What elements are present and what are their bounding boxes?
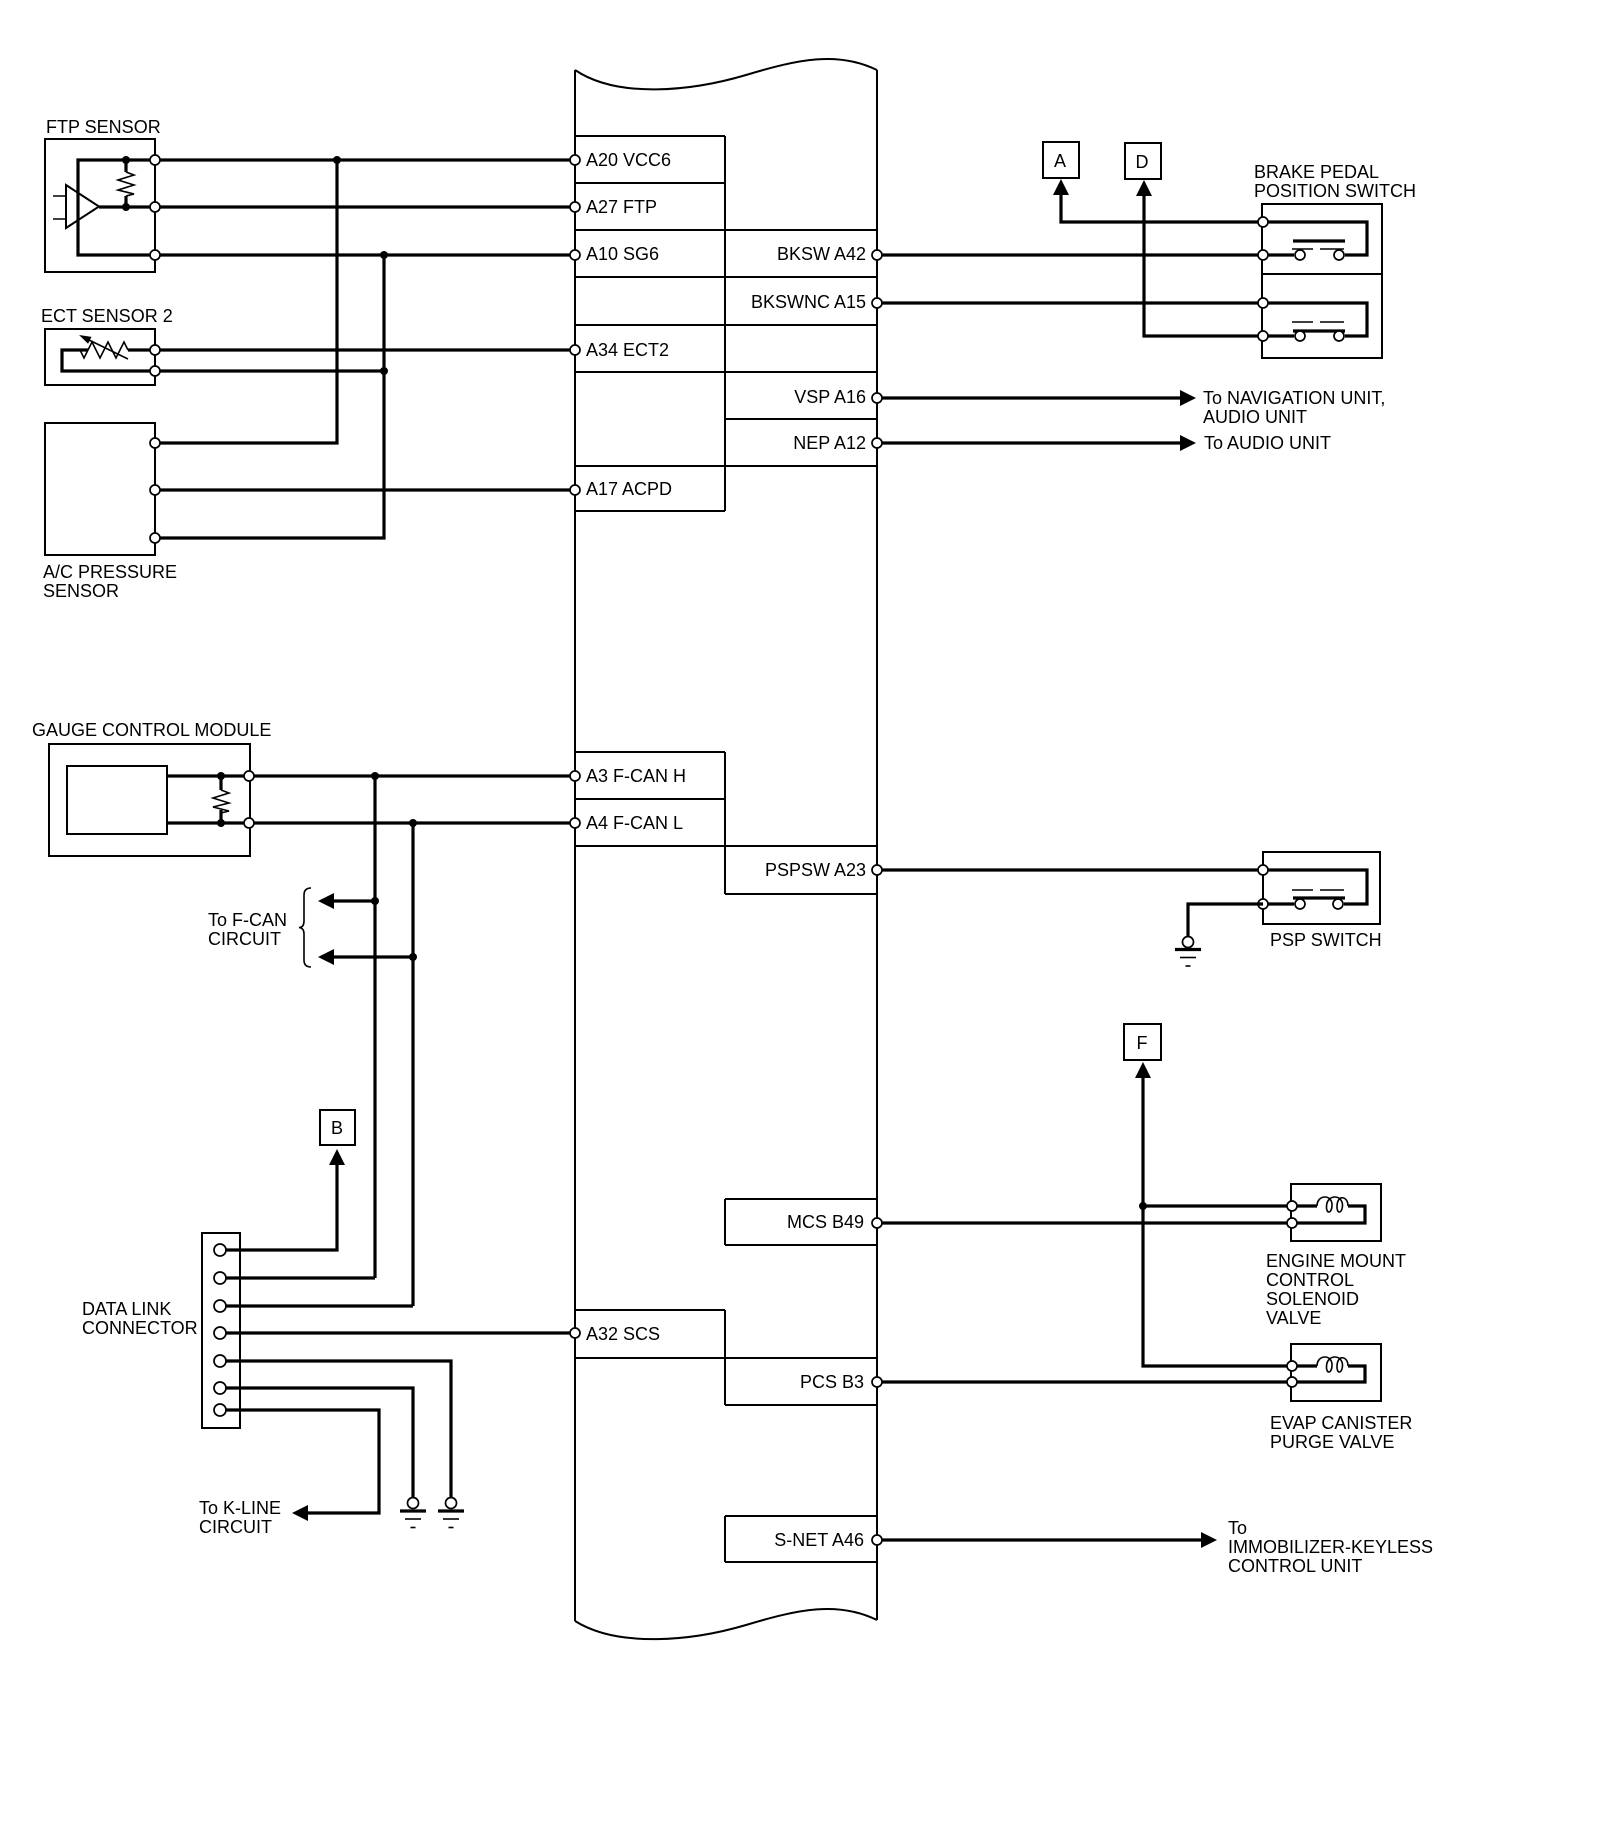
FTP sensor pin 1: [150, 155, 160, 165]
wire ECU VSP A16 output arrow: [877, 390, 1196, 406]
engine mount control solenoid valve box: [1291, 1184, 1381, 1241]
FTP sensor op-amp U2: [53, 185, 155, 228]
data link connector box: [202, 1233, 240, 1428]
wire ECU MCS B49 to engine mount solenoid: [877, 1221, 1292, 1224]
FTP sensor internal supply rail wire: [78, 160, 155, 255]
wire to F-CAN circuit lower arrow: [318, 949, 413, 965]
svg-text:A3 F-CAN H: A3 F-CAN H: [586, 766, 686, 786]
DLC pin 3: [214, 1300, 226, 1312]
svg-text:A20 VCC6: A20 VCC6: [586, 150, 671, 170]
wire ECU PSPSW A23 to PSP switch: [877, 868, 1263, 871]
ECU inner column line x=725: [724, 136, 726, 1562]
svg-text:A: A: [1054, 151, 1066, 171]
wire FTP pin3 to ECU A10 SG6: [160, 253, 575, 256]
svg-text:FTP SENSOR: FTP SENSOR: [46, 117, 161, 137]
wire feed to engine mount solenoid: [1143, 1204, 1292, 1207]
ECU pin circle BKSW: [872, 250, 882, 260]
pin row divider lines (right column x725-877): [725, 419, 877, 1562]
wire VCC6 trunk down to A/C sensor pin1: [160, 160, 337, 443]
junction dot F-CAN L branch: [409, 819, 417, 827]
gauge control module pin 2: [244, 818, 254, 828]
brake switch SW2 fixed contacts: [1295, 331, 1305, 341]
engine mount solenoid coil L1: [1292, 1197, 1365, 1223]
wire GCM pin1 to ECU A3 F-CAN H: [254, 774, 575, 777]
EVAP purge valve coil L2: [1292, 1357, 1365, 1382]
svg-text:IMMOBILIZER-KEYLESS: IMMOBILIZER-KEYLESS: [1228, 1537, 1433, 1557]
PSP switch fixed contacts: [1295, 899, 1305, 909]
wire DLC pin4 to ECU A32 SCS: [226, 1331, 575, 1334]
brake switch SW2 contact wiring: [1263, 303, 1367, 336]
svg-text:A17 ACPD: A17 ACPD: [586, 479, 672, 499]
svg-text:BKSW A42: BKSW A42: [777, 244, 866, 264]
brake switch SW1 fixed contacts: [1295, 250, 1305, 260]
wire FTP pin2 to ECU A27 FTP: [160, 205, 575, 208]
ground G2 (DLC pin6): [400, 1498, 426, 1528]
svg-text:VALVE: VALVE: [1266, 1308, 1321, 1328]
connector reference box F: [1124, 1024, 1161, 1060]
pin row divider lines (full span x575-877): [575, 230, 877, 1358]
wire DLC pin2 to F-CAN H trunk: [226, 1276, 375, 1279]
svg-text:NEP A12: NEP A12: [793, 433, 866, 453]
wire SG6 trunk down to A/C sensor pin3: [160, 255, 384, 538]
wire ECU BKSW A42 to brake switch: [877, 253, 1263, 256]
junction dot SG6 branch: [380, 251, 388, 259]
svg-text:A27 FTP: A27 FTP: [586, 197, 657, 217]
PSP switch contact wiring: [1263, 870, 1367, 904]
svg-text:SENSOR: SENSOR: [43, 581, 119, 601]
ECT sensor 2 box: [45, 329, 155, 385]
svg-text:A34 ECT2: A34 ECT2: [586, 340, 669, 360]
gauge control module outer box: [49, 744, 250, 856]
ECU pin circle A34: [570, 345, 580, 355]
gauge control module terminating resistor: [213, 776, 229, 823]
wire DLC pin7 to K-LINE arrow: [226, 1410, 379, 1521]
ECT sensor 2 pin 2: [150, 366, 160, 376]
PSP switch terminals: [1258, 865, 1268, 875]
junction dot GCM resistor top: [217, 772, 225, 780]
svg-text:CIRCUIT: CIRCUIT: [199, 1517, 272, 1537]
junction dot F-CAN L arrow tee: [409, 953, 417, 961]
ECU pin circle A32: [570, 1328, 580, 1338]
wire ECU NEP A12 output arrow: [877, 435, 1196, 451]
wire F-CAN L trunk: [411, 823, 414, 1306]
svg-text:D: D: [1136, 152, 1149, 172]
svg-text:CONTROL UNIT: CONTROL UNIT: [1228, 1556, 1362, 1576]
svg-text:CONNECTOR: CONNECTOR: [82, 1318, 198, 1338]
junction dot GCM resistor bottom: [217, 819, 225, 827]
pin row divider lines (left column x575-725): [575, 136, 725, 1310]
wire PSP switch to ground: [1188, 904, 1263, 937]
EVAP purge valve pin 2: [1287, 1377, 1297, 1387]
engine mount solenoid pin 1: [1287, 1201, 1297, 1211]
junction dot ECT2 ground tee: [380, 367, 388, 375]
DLC pin 6: [214, 1382, 226, 1394]
junction dot FTP rail/resistor top: [122, 156, 130, 164]
ground G1 (PSP switch): [1175, 937, 1201, 967]
ECU pin circle A20: [570, 155, 580, 165]
ECU pin circle A3: [570, 771, 580, 781]
ECU pin circle MCS: [872, 1218, 882, 1228]
wire ECU right edge: [876, 70, 878, 1620]
svg-text:PCS B3: PCS B3: [800, 1372, 864, 1392]
brake switch SW2 moving contact bar: [1292, 322, 1345, 331]
wire ECU PCS B3 to EVAP purge valve: [877, 1380, 1292, 1383]
svg-text:ENGINE MOUNT: ENGINE MOUNT: [1266, 1251, 1406, 1271]
svg-text:DATA LINK: DATA LINK: [82, 1299, 171, 1319]
ECU pin circle NEP: [872, 438, 882, 448]
ECT sensor 2 pin 1: [150, 345, 160, 355]
ECT sensor 2 thermistor element: [62, 335, 155, 371]
wire ECU BKSWNC A15 to brake switch: [877, 301, 1263, 304]
junction dot F-CAN H arrow tee: [371, 897, 379, 905]
brake switch SW1 terminals: [1258, 217, 1268, 227]
DLC pin 7: [214, 1404, 226, 1416]
junction dot solenoid feed tee: [1139, 1202, 1147, 1210]
svg-text:A10 SG6: A10 SG6: [586, 244, 659, 264]
brace for F-CAN circuit: [299, 888, 311, 967]
junction dot VCC6 branch: [333, 156, 341, 164]
DLC pin 1: [214, 1244, 226, 1256]
svg-text:PSP SWITCH: PSP SWITCH: [1270, 930, 1382, 950]
wire ECT pin2 to SG6 trunk: [160, 369, 384, 372]
svg-text:AUDIO UNIT: AUDIO UNIT: [1203, 407, 1307, 427]
svg-text:BRAKE PEDAL: BRAKE PEDAL: [1254, 162, 1379, 182]
ECU pin circle PCS: [872, 1377, 882, 1387]
svg-text:CONTROL: CONTROL: [1266, 1270, 1354, 1290]
engine mount solenoid pin 2: [1287, 1218, 1297, 1228]
wire ECU S-NET A46 output arrow: [877, 1532, 1217, 1548]
EVAP canister purge valve box: [1291, 1344, 1381, 1401]
ECU pin circle A4: [570, 818, 580, 828]
ECU pin circle S-NET: [872, 1535, 882, 1545]
wire BKSWNC branch up to box D: [1136, 180, 1263, 336]
svg-text:To F-CAN: To F-CAN: [208, 910, 287, 930]
wire F-CAN H trunk: [373, 776, 376, 1278]
connector reference box D: [1125, 143, 1161, 179]
svg-text:B: B: [331, 1118, 343, 1138]
wire ECU left edge: [574, 70, 576, 1621]
brake pedal position switch SW1 outer box: [1262, 204, 1382, 358]
wire DLC pin1 up to box B: [226, 1149, 345, 1250]
svg-text:To AUDIO UNIT: To AUDIO UNIT: [1204, 433, 1331, 453]
ECU pin circle A10: [570, 250, 580, 260]
ECU pin circle VSP: [872, 393, 882, 403]
ECU pin circle BKSWNC: [872, 298, 882, 308]
svg-text:To: To: [1228, 1518, 1247, 1538]
FTP sensor pin 3: [150, 250, 160, 260]
ground G3 (DLC pin5): [438, 1498, 464, 1528]
wire GCM pin2 to ECU A4 F-CAN L: [254, 821, 575, 824]
wire DLC pin6 to ground: [226, 1388, 413, 1498]
A/C pressure sensor pin 3: [150, 533, 160, 543]
svg-text:A/C PRESSURE: A/C PRESSURE: [43, 562, 177, 582]
svg-text:S-NET A46: S-NET A46: [774, 1530, 864, 1550]
svg-text:BKSWNC A15: BKSWNC A15: [751, 292, 866, 312]
wire A/C sensor pin2 to ECU A17 ACPD: [160, 488, 575, 491]
wire DLC pin5 to ground: [226, 1361, 451, 1498]
DLC pin 5: [214, 1355, 226, 1367]
svg-text:To K-LINE: To K-LINE: [199, 1498, 281, 1518]
junction dot F-CAN H branch: [371, 772, 379, 780]
A/C pressure sensor pin 2: [150, 485, 160, 495]
wire to F-CAN circuit upper arrow: [318, 893, 375, 909]
A/C pressure sensor pin 1: [150, 438, 160, 448]
svg-text:GAUGE CONTROL MODULE: GAUGE CONTROL MODULE: [32, 720, 271, 740]
DLC pin 2: [214, 1272, 226, 1284]
gauge control module inner unit box: [67, 766, 167, 834]
wire ECT pin1 to ECU A34 ECT2: [160, 348, 575, 351]
svg-text:F: F: [1137, 1033, 1148, 1053]
svg-text:ECT SENSOR 2: ECT SENSOR 2: [41, 306, 173, 326]
FTP sensor internal resistor: [118, 160, 134, 207]
wire FTP pin1 to ECU A20 VCC6: [160, 158, 575, 161]
PSP switch moving contact bar: [1292, 890, 1345, 898]
ECM/PCM connector block U1 (torn-edge outline): [575, 59, 877, 1639]
svg-text:PURGE VALVE: PURGE VALVE: [1270, 1432, 1394, 1452]
junction dot FTP output/resistor bottom: [122, 203, 130, 211]
EVAP purge valve pin 1: [1287, 1361, 1297, 1371]
ECU torn top edge: [575, 59, 877, 89]
wire DLC pin3 to F-CAN L trunk: [226, 1304, 413, 1307]
svg-text:A4 F-CAN L: A4 F-CAN L: [586, 813, 683, 833]
FTP sensor pin 2: [150, 202, 160, 212]
brake switch SW1 (stop lamp) contact wiring: [1263, 222, 1367, 255]
DLC pin 4: [214, 1327, 226, 1339]
FTP sensor box: [45, 139, 155, 272]
ECU pin circle A17: [570, 485, 580, 495]
brake switch SW2 terminals: [1258, 298, 1268, 308]
svg-text:VSP A16: VSP A16: [794, 387, 866, 407]
svg-text:MCS B49: MCS B49: [787, 1212, 864, 1232]
gauge control module pin 1: [244, 771, 254, 781]
A/C pressure sensor box: [45, 423, 155, 555]
svg-text:PSPSW A23: PSPSW A23: [765, 860, 866, 880]
connector reference box A: [1043, 142, 1079, 178]
wire BKSW branch up to box A: [1053, 179, 1263, 222]
svg-text:To NAVIGATION UNIT,: To NAVIGATION UNIT,: [1203, 388, 1385, 408]
PSP switch box: [1263, 852, 1380, 924]
connector reference box B: [320, 1110, 355, 1145]
gauge control module internal wires: [167, 776, 249, 823]
svg-text:A32 SCS: A32 SCS: [586, 1324, 660, 1344]
brake switch SW1 moving contact bar: [1292, 241, 1345, 249]
wire MCS/PCS power branch up to box F: [1135, 1062, 1292, 1366]
svg-text:EVAP CANISTER: EVAP CANISTER: [1270, 1413, 1412, 1433]
svg-text:SOLENOID: SOLENOID: [1266, 1289, 1359, 1309]
ECU torn bottom edge: [575, 1609, 877, 1639]
ECU pin circle A27: [570, 202, 580, 212]
svg-text:CIRCUIT: CIRCUIT: [208, 929, 281, 949]
svg-text:POSITION SWITCH: POSITION SWITCH: [1254, 181, 1416, 201]
ECU pin circle PSPSW: [872, 865, 882, 875]
